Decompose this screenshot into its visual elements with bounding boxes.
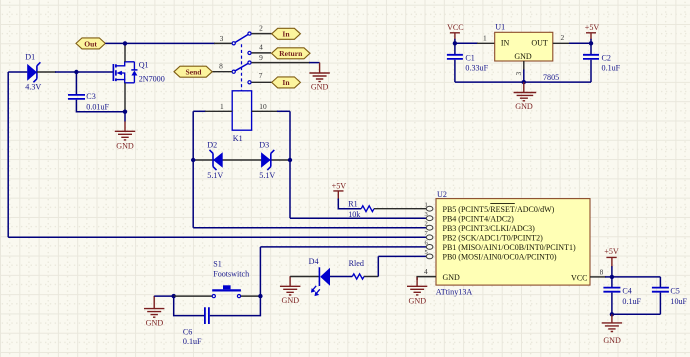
relay switch pin 7	[248, 81, 251, 84]
overline RESET	[490, 203, 515, 205]
wire zener row D2 D3	[193, 159, 290, 161]
pin bubble 1	[426, 206, 433, 211]
wire PB0 row	[378, 255, 426, 257]
ground GND at pin 9	[309, 63, 329, 82]
capacitor C1 0.33uF	[447, 43, 463, 82]
port Send	[174, 66, 212, 77]
pin Q1 drain	[124, 43, 126, 61]
svg-text:4: 4	[259, 43, 263, 52]
svg-text:K1: K1	[233, 134, 243, 143]
switch S1 footswitch	[212, 285, 241, 297]
wire relay right rail	[289, 111, 291, 218]
svg-text:C5: C5	[670, 286, 679, 295]
relay K1 coil box	[232, 91, 251, 130]
wire GND to footswitch	[154, 295, 175, 297]
wire pin9 to ground	[251, 62, 310, 64]
wire node A to Q1 gate	[76, 71, 113, 73]
svg-text:4.3V: 4.3V	[25, 83, 41, 92]
svg-text:1: 1	[483, 33, 487, 42]
svg-text:2: 2	[425, 220, 428, 227]
capacitor C2 0.1uF	[583, 43, 599, 82]
svg-text:7805: 7805	[543, 73, 559, 82]
junction +5V / C2 / U1 pin2	[589, 41, 593, 45]
svg-text:OUT: OUT	[531, 39, 548, 48]
svg-text:In: In	[282, 30, 290, 39]
wire K1 pin 1	[193, 110, 206, 112]
svg-text:C4: C4	[622, 286, 631, 295]
wire Send port to pin 8	[212, 71, 232, 73]
pin bubble 6	[426, 245, 433, 250]
svg-text:GND: GND	[514, 52, 532, 61]
ground GND under Q1	[115, 121, 135, 139]
wire D1 cathode to node A	[37, 71, 56, 73]
svg-text:GND: GND	[146, 318, 164, 327]
wire K1 pin 10	[252, 110, 278, 112]
pin U2 pin 8 VCC	[590, 276, 606, 278]
svg-text:2: 2	[259, 23, 263, 32]
wire GND to D4 cathode	[290, 276, 319, 278]
wire PB4 row	[290, 217, 426, 219]
wire PB3 row	[193, 227, 426, 229]
wire to S1 left contact	[174, 295, 212, 297]
capacitor C5 10uF	[652, 277, 669, 314]
svg-text:D3: D3	[259, 141, 269, 150]
wire pin7 to In port	[251, 81, 271, 83]
relay switch pin 3	[232, 42, 235, 45]
wire D4 anode to Rled	[330, 276, 352, 278]
svg-text:3: 3	[514, 72, 523, 76]
wire VCC to U1 pin 1	[455, 42, 478, 44]
svg-text:8: 8	[219, 61, 223, 70]
wire footswitch rail up to PB1	[259, 247, 261, 296]
svg-text:Rled: Rled	[349, 259, 364, 268]
wire Out to switch pin 3	[105, 42, 215, 44]
svg-text:0.1uF: 0.1uF	[602, 64, 621, 73]
junction C6 left	[172, 294, 176, 298]
svg-text:5: 5	[425, 249, 428, 256]
relay actuator dashed linkage	[241, 44, 243, 91]
svg-text:7: 7	[259, 71, 263, 80]
svg-text:GND: GND	[282, 296, 300, 305]
diode D1 (zener 4.3V)	[27, 62, 40, 82]
relay switch pin 4	[248, 51, 251, 54]
ground GND under C4	[602, 314, 622, 331]
svg-text:1: 1	[425, 201, 428, 208]
wire D1 anode	[8, 71, 27, 73]
wire relay left rail	[192, 111, 194, 227]
svg-text:2N7000: 2N7000	[139, 75, 165, 84]
junction left rail / D2	[191, 158, 195, 162]
switch arm pin8-pin9	[235, 63, 248, 70]
svg-text:Return: Return	[279, 49, 303, 58]
svg-text:GND: GND	[116, 142, 134, 151]
svg-text:C2: C2	[602, 54, 611, 63]
power +5V at U2	[604, 247, 619, 277]
svg-text:U1: U1	[495, 23, 505, 32]
relay switch pin 9	[248, 61, 251, 64]
junction S1 / rail	[258, 294, 262, 298]
junction Q1 source / C3	[123, 110, 127, 114]
svg-text:ATtiny13A: ATtiny13A	[436, 288, 473, 297]
port In (lower)	[272, 77, 301, 88]
junction node A (D1/C3/Q1 gate)	[74, 70, 78, 74]
ground GND at D4	[280, 276, 300, 295]
wire pin4 to Return port	[251, 52, 271, 54]
svg-text:D2: D2	[207, 141, 217, 150]
capacitor C6 0.1uF	[174, 296, 261, 324]
diode D3 (zener 5.1V)	[261, 150, 274, 170]
svg-text:GND: GND	[515, 102, 533, 111]
junction +5V / pin8 / C4	[610, 275, 614, 279]
svg-text:GND: GND	[311, 82, 329, 91]
ground GND at footswitch	[144, 296, 164, 317]
resistor R1 10k	[361, 206, 374, 212]
wire R1 to U2 pin 1	[374, 208, 426, 210]
svg-text:GND: GND	[443, 273, 461, 282]
svg-text:PB0 (MOSI/AIN0/OC0A/PCINT0): PB0 (MOSI/AIN0/OC0A/PCINT0)	[443, 253, 557, 262]
svg-text:PB2 (SCK/ADC1/T0/PCINT2): PB2 (SCK/ADC1/T0/PCINT2)	[443, 234, 544, 243]
svg-text:0.01uF: 0.01uF	[86, 103, 109, 112]
switch arm pin3-pin2	[235, 34, 248, 42]
svg-text:R1: R1	[348, 199, 357, 208]
relay switch pin 8	[232, 70, 235, 73]
port Return	[272, 48, 311, 59]
svg-text:4: 4	[424, 267, 428, 276]
svg-text:3: 3	[425, 211, 428, 218]
resistor Rled	[352, 274, 364, 279]
power +5V for R1	[332, 181, 362, 208]
wire net D1 left rail	[7, 72, 9, 237]
junction U1 pin3 / ground	[522, 80, 526, 84]
pin U2 pin 4 GND	[417, 277, 436, 280]
svg-text:+5V: +5V	[604, 247, 619, 256]
svg-text:Q1: Q1	[139, 61, 149, 70]
svg-text:PB1 (MISO/AIN1/OC0B/INT0/PCINT: PB1 (MISO/AIN1/OC0B/INT0/PCINT1)	[443, 243, 576, 252]
pin Q1 source	[124, 83, 126, 112]
svg-text:8: 8	[600, 267, 604, 276]
op-amp U1 regulator 7805 body	[495, 32, 553, 61]
svg-text:0.1uF: 0.1uF	[183, 337, 202, 346]
svg-text:C3: C3	[86, 92, 95, 101]
svg-text:C1: C1	[465, 54, 474, 63]
junction C4 / ground	[610, 312, 614, 316]
capacitor C3 0.01uF	[68, 72, 125, 112]
svg-text:+5V: +5V	[585, 23, 600, 32]
svg-text:PB4 (PCINT4/ADC2): PB4 (PCINT4/ADC2)	[443, 214, 515, 223]
wire Rled rail up to PB0 row	[377, 256, 379, 276]
svg-text:C6: C6	[183, 328, 192, 337]
svg-text:GND: GND	[603, 336, 621, 345]
svg-text:9: 9	[259, 53, 263, 62]
svg-text:VCC: VCC	[571, 273, 587, 282]
svg-text:0.1uF: 0.1uF	[622, 297, 641, 306]
svg-text:Footswitch: Footswitch	[213, 270, 249, 279]
svg-text:PB3 (PCINT3/CLKI/ADC3): PB3 (PCINT3/CLKI/ADC3)	[443, 224, 536, 233]
svg-text:D1: D1	[25, 53, 35, 62]
wire +5V rail to C5	[612, 276, 661, 278]
wire ground rail C1-C2	[455, 81, 591, 83]
svg-text:5.1V: 5.1V	[259, 171, 275, 180]
op-amp U2 MCU body	[436, 199, 590, 286]
svg-text:+5V: +5V	[332, 181, 347, 190]
svg-text:2: 2	[560, 33, 564, 42]
transistor Q1 2N7000	[113, 62, 137, 83]
pin bubble 2	[426, 225, 433, 230]
svg-text:3: 3	[220, 34, 224, 43]
svg-text:D4: D4	[309, 257, 319, 266]
wire PB1 row	[260, 246, 426, 248]
wire C4-C5 ground rail	[612, 313, 661, 315]
pin U1 pin 3	[523, 61, 525, 71]
svg-text:S1: S1	[213, 259, 222, 268]
wire PB2 row	[8, 236, 426, 238]
svg-text:GND: GND	[409, 297, 427, 306]
port Out	[76, 38, 105, 49]
pin bubble 7	[426, 235, 433, 240]
power VCC	[447, 23, 464, 44]
svg-text:In: In	[282, 78, 290, 87]
port In (top)	[272, 28, 301, 39]
junction right rail / D3	[288, 158, 292, 162]
svg-text:0.33uF: 0.33uF	[465, 64, 488, 73]
ground GND under U1	[514, 82, 537, 101]
wire S1 right contact to rail	[241, 295, 261, 297]
diode D2 (zener 5.1V)	[210, 150, 223, 170]
svg-text:10uF: 10uF	[670, 297, 687, 306]
junction Out / Q1 drain	[123, 41, 127, 45]
wire Rled to PB0	[364, 276, 378, 278]
svg-text:5.1V: 5.1V	[207, 171, 223, 180]
diode D4 LED	[311, 267, 330, 296]
svg-text:VCC: VCC	[447, 23, 464, 32]
power +5V	[585, 23, 600, 43]
relay switch pin 2	[248, 32, 251, 35]
svg-text:PB5 (PCINT5/RESET/ADC0/dW): PB5 (PCINT5/RESET/ADC0/dW)	[443, 205, 555, 214]
svg-text:Send: Send	[185, 68, 202, 77]
wire to ground	[124, 112, 126, 122]
svg-text:IN: IN	[501, 39, 510, 48]
pin bubble 3	[426, 216, 433, 221]
svg-text:10: 10	[259, 102, 267, 111]
ground GND at U2 pin 4	[407, 277, 427, 295]
svg-text:Out: Out	[84, 39, 97, 48]
svg-text:1: 1	[220, 102, 224, 111]
svg-text:U2: U2	[437, 190, 447, 199]
wire U1 pin 2 to +5V	[553, 42, 570, 44]
wire pin2 to In port	[251, 33, 271, 35]
pin bubble 5	[426, 254, 433, 259]
junction VCC / C1 / U1 pin1	[453, 41, 457, 45]
capacitor C4 0.1uF	[603, 277, 620, 314]
